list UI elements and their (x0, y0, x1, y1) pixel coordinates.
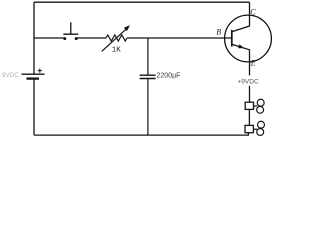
capacitor C1 (140, 75, 156, 78)
wire base rail segment 1 (34, 37, 64, 39)
wire base rail segment 2 (77, 37, 106, 39)
wire capacitor tap (147, 38, 149, 75)
svg-text:+9VDC: +9VDC (238, 79, 259, 86)
wire base rail segment 3 (127, 37, 231, 39)
wire bottom rail (34, 133, 248, 135)
svg-text:C: C (250, 8, 256, 17)
battery B1 9VDC (22, 69, 45, 79)
wire left rail battery positive (33, 2, 35, 73)
wire left rail battery negative (33, 79, 35, 136)
connector J1 (245, 99, 264, 113)
connector J2 (245, 121, 264, 135)
svg-text:B: B (216, 28, 221, 37)
svg-text:9VDC: 9VDC (2, 72, 19, 79)
variable resistor R1 (102, 25, 130, 51)
svg-text:1K: 1K (112, 47, 122, 55)
wire capacitor to bottom rail (147, 79, 149, 136)
pushbutton switch S1 (63, 22, 78, 40)
wire connector J1 to J2 (248, 109, 250, 125)
wire emitter to connector J1 (249, 86, 251, 102)
svg-text:2200µF: 2200µF (157, 72, 181, 79)
svg-text:E: E (250, 59, 256, 68)
transistor Q1 (225, 2, 272, 75)
wire top rail (34, 1, 250, 3)
